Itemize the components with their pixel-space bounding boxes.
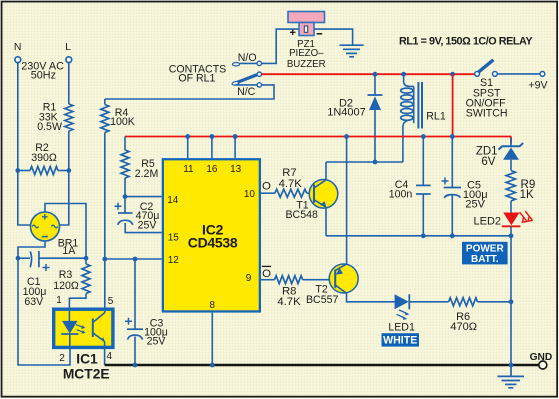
svg-text:2.2M: 2.2M — [135, 168, 159, 180]
IC1 internal LED — [61, 311, 85, 346]
LED2 red — [474, 211, 533, 227]
wire batt column to ground — [510, 236, 512, 365]
svg-text:1A: 1A — [62, 245, 76, 257]
junction pin5 node — [102, 257, 107, 262]
transistor T2 BC557 — [306, 264, 358, 306]
svg-text:L: L — [65, 42, 71, 53]
capacitor C2 — [115, 197, 162, 233]
svg-text:14: 14 — [167, 195, 179, 206]
wire pin16 — [211, 137, 213, 159]
resistor R5 — [121, 137, 158, 197]
svg-text:RL1: RL1 — [426, 111, 446, 123]
junction R5-C2-pin14 — [123, 194, 128, 199]
terminal +9V — [528, 72, 548, 92]
svg-text:11: 11 — [183, 164, 194, 175]
terminal L — [65, 42, 72, 63]
wire N vertical — [18, 62, 31, 225]
red drop to ZD1 — [510, 137, 512, 144]
junction pin8 ground — [210, 363, 215, 368]
resistor R1 — [37, 102, 73, 133]
junction D2 top — [373, 72, 378, 77]
svg-text:100K: 100K — [110, 116, 135, 128]
resistor R7 — [275, 167, 307, 197]
junction C3 top — [133, 257, 138, 262]
junction D2 anode — [373, 160, 378, 165]
junction rail T2 emitter — [344, 134, 349, 139]
svg-text:470Ω: 470Ω — [450, 321, 477, 333]
svg-text:BATT.: BATT. — [471, 254, 499, 265]
svg-text:8: 8 — [209, 300, 215, 311]
svg-text:25V: 25V — [465, 199, 485, 211]
svg-text:GND: GND — [530, 352, 553, 363]
wire R4 to pin5 node — [104, 133, 106, 260]
svg-text:BC557: BC557 — [306, 294, 338, 306]
svg-text:O: O — [262, 181, 271, 193]
junction C4 bottom — [421, 233, 426, 238]
svg-text:+9V: +9V — [528, 79, 548, 91]
svg-text:OF RL1: OF RL1 — [178, 72, 215, 84]
wire pin9 out — [261, 279, 275, 281]
wire R6 to batt column — [478, 301, 512, 303]
svg-text:WHITE: WHITE — [383, 335, 417, 347]
capacitor C4 — [389, 137, 431, 236]
svg-text:BUZZER: BUZZER — [287, 59, 326, 70]
LED1 white — [388, 294, 415, 333]
resistor R2 — [18, 142, 69, 175]
svg-text:1: 1 — [56, 295, 62, 306]
svg-text:15: 15 — [168, 232, 180, 243]
junction batt ground — [509, 363, 514, 368]
wire T2 collector to LED1 — [347, 293, 395, 302]
red wire common to S1 — [262, 73, 475, 75]
red wire drop to rail — [452, 74, 454, 136]
svg-text:10: 10 — [244, 189, 256, 200]
label POWER BATT box — [462, 242, 508, 265]
wire N/O to PZ1 — [262, 29, 299, 63]
svg-text:12: 12 — [168, 255, 180, 266]
wire T1 collector — [325, 162, 327, 180]
junction R2 left — [15, 168, 20, 173]
svg-text:63V: 63V — [24, 296, 44, 308]
resistor R6 — [449, 298, 478, 333]
svg-text:RL1 = 9V, 150Ω 1C/O RELAY: RL1 = 9V, 150Ω 1C/O RELAY — [399, 36, 533, 48]
svg-text:100n: 100n — [389, 189, 413, 201]
junction C5 bottom — [450, 233, 455, 238]
wire R3 to IC1 pin1 — [69, 294, 86, 308]
IC2 CD4538 body — [163, 159, 260, 311]
label 230V AC 50Hz — [21, 61, 64, 82]
svg-text:1N4007: 1N4007 — [327, 107, 366, 119]
svg-text:5: 5 — [108, 296, 114, 307]
IC1 internal phototransistor — [93, 311, 105, 346]
junction S1 drop — [450, 72, 455, 77]
wire pin11 — [187, 137, 189, 159]
label Q-bar output — [262, 266, 271, 280]
svg-text:4: 4 — [107, 351, 113, 362]
junction rail pin11 — [185, 134, 190, 139]
wire PZ1 minus to ground — [314, 29, 353, 44]
terminal N — [14, 42, 22, 63]
IC1 labels — [63, 352, 110, 382]
junction R2 right — [66, 168, 71, 173]
wire L vertical lower — [59, 131, 68, 225]
junction C1 left node — [16, 256, 21, 261]
resistor R9 — [506, 171, 535, 213]
svg-text:16: 16 — [206, 164, 218, 175]
junction rail C5 — [450, 134, 455, 139]
label WHITE box — [382, 333, 420, 346]
wire BR1 plus output — [45, 204, 86, 257]
terminal GND — [530, 352, 553, 369]
wire N/C to R4 — [105, 85, 274, 99]
wire T2 emitter to rail — [346, 137, 348, 264]
svg-text:CD4538: CD4538 — [188, 235, 238, 251]
svg-text:120Ω: 120Ω — [53, 280, 79, 292]
wire T1 emitter battery line — [326, 235, 511, 237]
svg-text:BC548: BC548 — [285, 209, 317, 221]
contact N/O — [232, 52, 261, 66]
junction rail pin13 — [233, 134, 238, 139]
relay contact arm — [232, 72, 262, 86]
svg-text:POWER: POWER — [466, 244, 505, 255]
wire LED2 to batt line — [510, 226, 512, 236]
svg-text:PIEZO–: PIEZO– — [289, 48, 324, 59]
junction C3 ground — [133, 363, 138, 368]
svg-text:13: 13 — [230, 164, 242, 175]
wire BR1 minus output — [18, 241, 45, 258]
svg-text:25V: 25V — [138, 220, 158, 232]
bridge rectifier BR1 — [31, 212, 79, 257]
ground symbol at PZ1 — [340, 45, 364, 57]
junction rail C4 — [421, 134, 426, 139]
svg-text:MCT2E: MCT2E — [63, 367, 110, 382]
svg-text:2: 2 — [59, 353, 65, 364]
capacitor C1 — [18, 251, 86, 308]
svg-text:25V: 25V — [147, 336, 167, 348]
svg-text:IC1: IC1 — [76, 352, 98, 367]
junction R3 top node — [84, 256, 89, 261]
svg-text:6V: 6V — [481, 156, 495, 168]
svg-text:4.7K: 4.7K — [279, 178, 303, 190]
svg-text:N/O: N/O — [238, 52, 257, 64]
zener ZD1 — [476, 138, 523, 170]
wire pin5 drop — [104, 259, 106, 308]
wire pin12 — [105, 258, 162, 260]
contact N/C — [236, 83, 262, 98]
wire pin8 to ground — [211, 313, 213, 365]
wire IC1 pin4 to ground — [104, 347, 106, 365]
svg-text:N/C: N/C — [237, 86, 256, 98]
wire pin10 out — [261, 192, 275, 194]
junction RL1 top — [401, 72, 406, 77]
resistor R4 — [101, 99, 135, 133]
wire relay-D2-T1 collector — [326, 161, 403, 163]
svg-text:4.7K: 4.7K — [277, 296, 301, 308]
wire R8 to T2 base — [303, 279, 336, 281]
resistor R8 — [275, 276, 303, 308]
junction R6 batt column — [509, 299, 514, 304]
svg-text:50Hz: 50Hz — [31, 70, 56, 82]
svg-text:LED2: LED2 — [474, 215, 502, 227]
svg-text:O: O — [262, 268, 271, 280]
IC1 MCT2E body — [54, 309, 113, 347]
wire R7 to T1 base — [307, 192, 314, 194]
svg-text:LED1: LED1 — [388, 321, 415, 333]
wire T1 emitter to batt line — [325, 207, 327, 236]
wire L vertical upper — [68, 62, 70, 104]
switch S1 — [466, 60, 508, 120]
capacitor C5 — [442, 137, 488, 236]
junction rail pin16 — [210, 134, 215, 139]
capacitor C3 — [125, 259, 168, 365]
IC2 labels — [188, 221, 238, 250]
ground bus — [105, 364, 539, 367]
diode D2 — [327, 74, 382, 162]
wire S1 to +9V — [497, 73, 540, 75]
wire pin13 — [234, 137, 236, 159]
svg-text:390Ω: 390Ω — [31, 152, 57, 164]
transistor T1 BC548 — [285, 180, 337, 222]
label CONTACTS OF RL1 — [169, 64, 226, 85]
relay coil RL1 — [401, 74, 446, 162]
svg-text:N: N — [14, 42, 22, 53]
wire N node to IC1 pin2 — [18, 258, 70, 365]
svg-text:SWITCH: SWITCH — [466, 108, 508, 120]
red supply rail — [125, 136, 511, 138]
piezo buzzer PZ1 — [287, 12, 326, 70]
svg-text:0.5W: 0.5W — [37, 121, 62, 133]
ground symbol bottom — [498, 365, 525, 388]
svg-text:1K: 1K — [520, 189, 534, 201]
wire LED1 to R6 — [409, 301, 448, 303]
junction batt line right — [509, 233, 514, 238]
svg-text:9: 9 — [246, 273, 252, 284]
wire pin14 — [125, 196, 162, 198]
resistor R3 — [53, 258, 90, 293]
